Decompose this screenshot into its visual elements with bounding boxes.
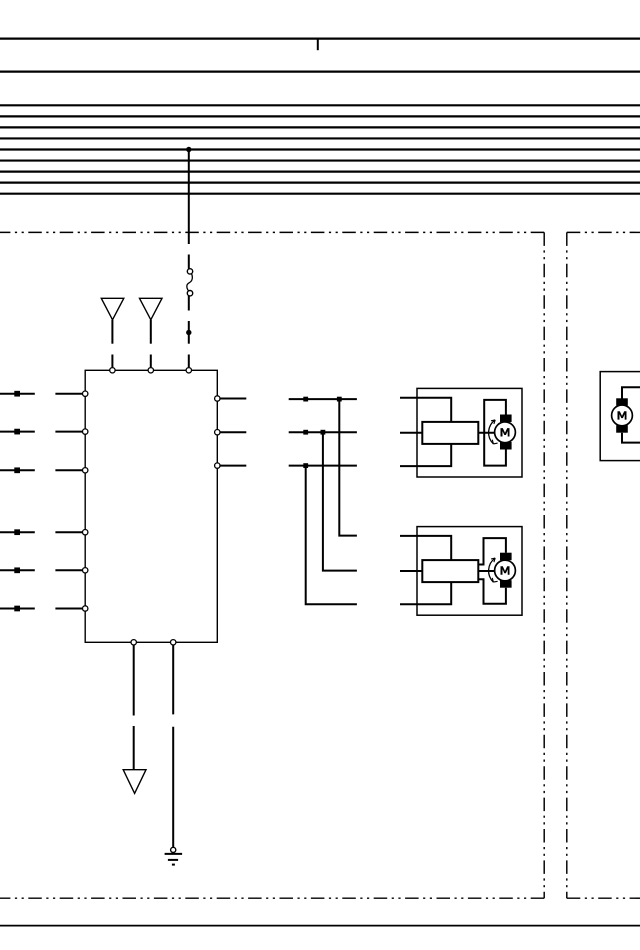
middle wire V3 — [306, 466, 357, 605]
off-page arrow 1 — [101, 298, 124, 320]
motor 1 actuator block — [422, 422, 478, 444]
motor 1 feed wire middle — [400, 432, 422, 434]
terminal right 2 — [215, 430, 220, 435]
motor M1 label — [501, 428, 510, 436]
ground bar 1 — [165, 853, 183, 855]
section border right box top — [567, 231, 640, 233]
section border right box bottom — [567, 897, 640, 899]
off-page arrow 2 — [140, 298, 163, 320]
wire unit bottom 2 segment B — [172, 727, 174, 847]
terminal right 3 — [215, 463, 220, 468]
terminal top 2 — [148, 368, 153, 373]
wire from arrow 2 — [150, 320, 152, 344]
motor 1 rotation arrow — [489, 420, 496, 444]
wire bus line 8 — [0, 159, 640, 161]
wire bus line 7 — [0, 148, 640, 150]
splice block on left wire 3 — [14, 467, 20, 473]
junction block H2-V2 — [321, 430, 326, 435]
wire bus line 9 — [0, 171, 640, 173]
section border left box top — [0, 231, 544, 233]
ground terminal — [171, 847, 176, 852]
motor 2 armature loop lower — [478, 579, 506, 604]
motor 1 brush top — [500, 415, 512, 423]
motor 2 rotation arrow — [489, 558, 496, 582]
wire bus line 1 — [0, 37, 640, 39]
terminal left 5 — [83, 568, 88, 573]
motor 1 armature loop — [484, 400, 506, 466]
bottom rule — [0, 925, 640, 927]
terminal left 3 — [83, 468, 88, 473]
motor M2 body — [495, 560, 516, 581]
splice block on left wire 1 — [14, 391, 20, 397]
right wire 1 — [220, 398, 246, 400]
wire stub arrow 1 to unit — [111, 355, 113, 368]
wire bus line 11 — [0, 193, 640, 195]
middle wire V2 — [323, 432, 357, 570]
ground bar 2 — [168, 859, 178, 861]
terminal left 2 — [83, 429, 88, 434]
tick on bus line 1 — [317, 39, 319, 51]
wire unit bottom 1 segment A — [133, 645, 135, 716]
left wire 3 — [0, 469, 35, 471]
terminal top 1 — [110, 368, 115, 373]
motor 3 brush top — [616, 398, 628, 405]
wire unit bottom 1 segment B — [133, 726, 135, 770]
splice block on left wire 4 — [14, 529, 20, 535]
left wire 1 — [0, 393, 35, 395]
section border right box left — [566, 232, 568, 898]
terminal bottom 1 — [131, 640, 136, 645]
wire bus line 3 — [0, 104, 640, 106]
wire stub arrow 2 to unit — [150, 355, 152, 368]
right wire 3 — [220, 465, 246, 467]
left wire 5 — [0, 569, 35, 571]
section border left box right — [543, 232, 545, 898]
wire bus line 4 — [0, 115, 640, 117]
motor 2 actuator block — [422, 560, 478, 582]
terminal left 6 — [83, 606, 88, 611]
motor 2 brush top — [500, 553, 512, 561]
motor 1 brush bottom — [500, 442, 512, 450]
junction block H1-V1 — [337, 397, 342, 402]
wire feed segment A — [188, 150, 190, 245]
wire unit bottom 2 segment A — [172, 645, 174, 714]
junction dot on bus line 7 — [186, 147, 191, 152]
wire feed segment B — [188, 255, 190, 269]
wire bus line 5 — [0, 126, 640, 128]
section border left box bottom — [0, 897, 544, 899]
left wire 4 — [0, 531, 35, 533]
control unit box — [85, 370, 217, 642]
wire feed segment D — [188, 321, 190, 344]
off-page arrow 3 — [123, 770, 146, 794]
middle wire V1 — [339, 399, 357, 535]
motor assembly 1 enclosure — [417, 388, 522, 477]
splice block H2a — [303, 430, 308, 435]
motor 3 brush bottom — [616, 425, 628, 433]
splice block on left wire 6 — [14, 606, 20, 612]
motor 3 armature loop lower — [622, 433, 640, 443]
wire bus line 2 — [0, 70, 640, 72]
junction dot on feed segment D — [186, 330, 191, 335]
splice block on left wire 5 — [14, 567, 20, 573]
motor 2 feed wire bottom — [400, 582, 451, 604]
middle wire H2 — [289, 431, 357, 433]
junction block H3-V3 — [303, 463, 308, 468]
motor M3 body — [612, 405, 633, 426]
motor 2 feed wire top — [400, 536, 451, 560]
motor 2 feed wire middle — [400, 570, 422, 572]
left wire 2 — [0, 431, 35, 433]
inline connector S-hook — [187, 274, 193, 291]
splice block on left wire 2 — [14, 429, 20, 435]
wire feed segment C — [188, 296, 190, 311]
motor 3 armature loop upper — [622, 387, 640, 399]
motor 2 brush bottom — [500, 580, 512, 588]
motor M1 body — [495, 422, 516, 443]
ground bar 3 — [172, 864, 175, 866]
wire bus line 6 — [0, 137, 640, 139]
terminal top 3 — [186, 368, 191, 373]
wire feed stub to unit — [188, 355, 190, 368]
wire from arrow 1 — [111, 320, 113, 344]
terminal right 1 — [215, 396, 220, 401]
motor 2 armature loop upper — [478, 538, 506, 564]
motor M3 label — [618, 411, 627, 419]
motor 1 feed wire top — [400, 398, 451, 422]
splice block H1a — [303, 397, 308, 402]
terminal left 4 — [83, 530, 88, 535]
motor 1 feed wire bottom — [400, 444, 451, 466]
inline connector lower terminal — [187, 291, 192, 296]
terminal left 1 — [83, 391, 88, 396]
wire bus line 10 — [0, 182, 640, 184]
middle wire H3 — [289, 465, 357, 467]
motor 1 output wire — [478, 432, 494, 434]
left wire 6 — [0, 608, 35, 610]
motor 2 output wire — [478, 570, 494, 572]
right wire 2 — [220, 431, 246, 433]
terminal bottom 2 — [171, 640, 176, 645]
motor assembly 3 enclosure — [600, 372, 640, 461]
middle wire H1 — [289, 398, 357, 400]
inline connector upper terminal — [187, 269, 192, 274]
motor assembly 2 enclosure — [417, 527, 522, 616]
motor M2 label — [501, 566, 510, 574]
